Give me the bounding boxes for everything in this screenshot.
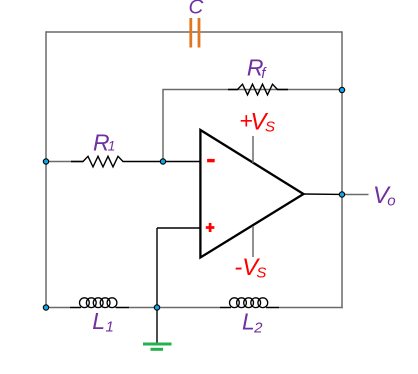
wire: feedback vertical from inverting node up to Rf row <box>162 90 164 162</box>
svg-text:1: 1 <box>108 138 116 154</box>
capacitor C (orange plates) <box>191 18 199 48</box>
label R1 <box>93 129 115 155</box>
svg-text:1: 1 <box>106 319 114 336</box>
op-amp non-inverting input marker (+) <box>206 223 215 232</box>
wire: non-inverting vertical down to ground node <box>156 228 158 308</box>
pin: +VS supply stub <box>252 136 254 163</box>
wire: non-inverting input horizontal <box>157 227 200 229</box>
label L1 <box>92 308 114 336</box>
label Vo <box>373 182 396 210</box>
op-amp U1 triangle <box>200 130 303 258</box>
node: ground junction <box>154 305 159 310</box>
svg-text:L: L <box>242 309 255 335</box>
node: inverting input junction <box>160 159 165 164</box>
label Rf <box>247 55 267 82</box>
label L2 <box>242 309 263 337</box>
node: R1 left junction <box>43 159 48 164</box>
svg-text:f: f <box>261 65 267 82</box>
pin: -VS supply stub <box>252 226 254 257</box>
inductor L2 (coil) <box>220 298 279 308</box>
wire: op-amp output to right rail <box>303 193 342 195</box>
node: Rf right junction <box>339 87 344 92</box>
node: output junction <box>339 192 344 197</box>
node: bottom-left junction <box>43 305 48 310</box>
svg-text:S: S <box>265 119 275 136</box>
wire: top horizontal (left loop to capacitor to right) <box>46 31 342 33</box>
svg-text:o: o <box>387 193 395 210</box>
wire: R1 row gray segment from left rail <box>46 161 83 163</box>
op-amp inverting input marker (-) <box>207 159 215 162</box>
wire: left vertical <box>45 31 47 307</box>
wire: bottom horizontal left segment <box>45 307 80 309</box>
wire: Rf row gray <box>162 89 342 91</box>
resistor Rf (zigzag) <box>228 84 288 95</box>
svg-text:L: L <box>92 308 105 334</box>
wire: right vertical <box>341 31 343 308</box>
svg-text:2: 2 <box>253 320 263 337</box>
ground symbol <box>143 308 172 350</box>
svg-text:S: S <box>256 264 266 281</box>
wire: output stub to Vo <box>342 194 369 196</box>
inductor L1 (coil) <box>70 298 129 308</box>
wire: bottom horizontal middle segment <box>116 307 231 309</box>
resistor R1 (zigzag) <box>71 156 200 167</box>
label +VS <box>239 108 275 136</box>
svg-text:C: C <box>189 0 204 19</box>
label -VS <box>234 254 266 281</box>
wire: bottom horizontal right segment <box>266 307 343 309</box>
